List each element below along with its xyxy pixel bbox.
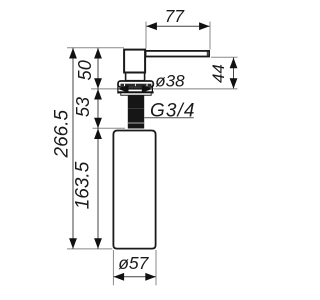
arrow o57 right (145, 273, 156, 281)
pump head (124, 50, 145, 73)
arrow o38 left (118, 85, 129, 93)
pump neck (126, 73, 145, 81)
o38 extension tick right (151, 85, 153, 93)
arrow 44 top (230, 58, 238, 68)
locknut ring band (118, 91, 153, 93)
G3/4 leader line (144, 117, 194, 119)
flange shading band (121, 84, 152, 86)
threaded tube (128, 95, 144, 128)
spout underside extension line to 44 dim (211, 56, 238, 58)
washer band under flange (123, 88, 150, 90)
arrow 50 bottom (94, 78, 102, 89)
arrow 53 top (94, 89, 102, 100)
arrow 44 bottom (230, 78, 238, 89)
svg-text:ø57: ø57 (118, 253, 149, 273)
arrow 77 right (199, 22, 210, 30)
o38 extension tick left (117, 85, 119, 93)
arrow 163.5 bottom (94, 238, 102, 249)
dim line / deck line at deck level (91, 88, 238, 90)
arrow 50 top (94, 48, 102, 59)
svg-text:77: 77 (165, 6, 186, 26)
o57 extension line right (155, 250, 157, 285)
o57 extension line left (112, 250, 114, 285)
thread texture streak dark (128, 108, 144, 110)
svg-text:163.5: 163.5 (73, 161, 94, 209)
svg-text:53: 53 (73, 97, 93, 117)
arrow 53 bottom (94, 118, 102, 129)
washer tray below ring (121, 93, 151, 95)
svg-text:ø38: ø38 (155, 72, 185, 91)
svg-text:50: 50 (75, 60, 95, 80)
dimension line 266.5 (72, 48, 74, 249)
top extension line (head top extended left) (67, 47, 124, 49)
extension line right of 77 dim (spout tip up) (209, 22, 211, 50)
dimension line 77 (147, 25, 210, 27)
arrow 163.5 top (94, 129, 102, 140)
dimension line 44 (233, 58, 235, 89)
arrow 266.5 bottom (69, 238, 77, 249)
arrow o57 left (114, 273, 125, 281)
dimension line o57 (114, 276, 156, 278)
bottle (113, 131, 155, 249)
arrow o38 right (142, 85, 153, 93)
arrow 266.5 top (69, 48, 77, 59)
arrow 77 left (146, 22, 157, 30)
bottle top extension line (93, 127, 126, 129)
extension line left of 77 dim (head right edge up) (145, 22, 147, 49)
svg-text:44: 44 (209, 64, 228, 83)
flange shading slits (124, 84, 126, 86)
svg-text:G3/4: G3/4 (150, 100, 196, 121)
dimension line 50-53-163.5 chain (97, 48, 99, 249)
spout tip inner line (206, 51, 208, 57)
svg-text:266.5: 266.5 (52, 109, 73, 158)
flange plate (118, 81, 153, 87)
bottom extension line (bottle bottom extended left) (67, 248, 112, 250)
thread texture streak light (128, 122, 144, 124)
spout arm (146, 51, 210, 57)
